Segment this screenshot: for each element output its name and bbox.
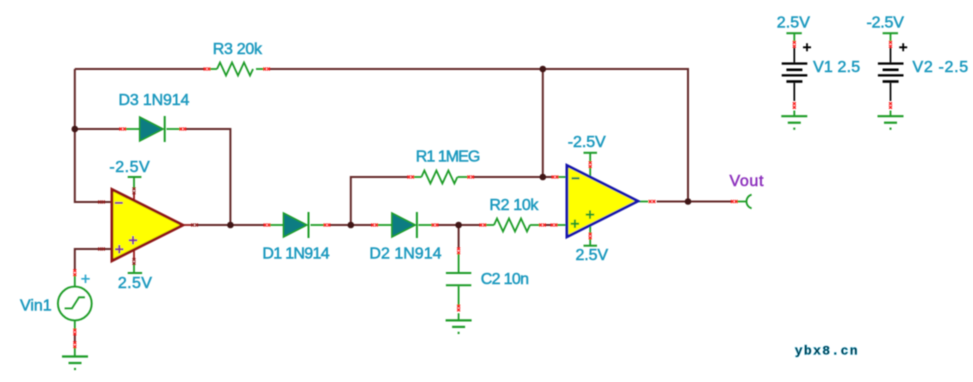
svg-text:C2 10n: C2 10n <box>481 271 529 288</box>
svg-text:R1 1MEG: R1 1MEG <box>416 149 481 166</box>
svg-text:V1 2.5: V1 2.5 <box>813 59 860 76</box>
svg-text:2.5V: 2.5V <box>576 247 609 264</box>
svg-text:-2.5V: -2.5V <box>867 15 905 32</box>
svg-text:V2 -2.5: V2 -2.5 <box>913 59 969 76</box>
svg-text:D3 1N914: D3 1N914 <box>119 92 190 109</box>
svg-text:2.5V: 2.5V <box>777 15 810 32</box>
svg-text:D2 1N914: D2 1N914 <box>369 246 441 263</box>
svg-text:Vin1: Vin1 <box>20 298 52 315</box>
svg-text:R3 20k: R3 20k <box>213 41 263 58</box>
svg-text:Vout: Vout <box>730 173 764 190</box>
svg-text:-2.5V: -2.5V <box>109 159 150 176</box>
svg-text:D1 1N914: D1 1N914 <box>262 246 329 263</box>
svg-text:ybx8.cn: ybx8.cn <box>795 344 858 359</box>
svg-text:2.5V: 2.5V <box>118 275 152 292</box>
svg-text:-2.5V: -2.5V <box>568 134 606 151</box>
svg-text:R2 10k: R2 10k <box>489 197 539 214</box>
